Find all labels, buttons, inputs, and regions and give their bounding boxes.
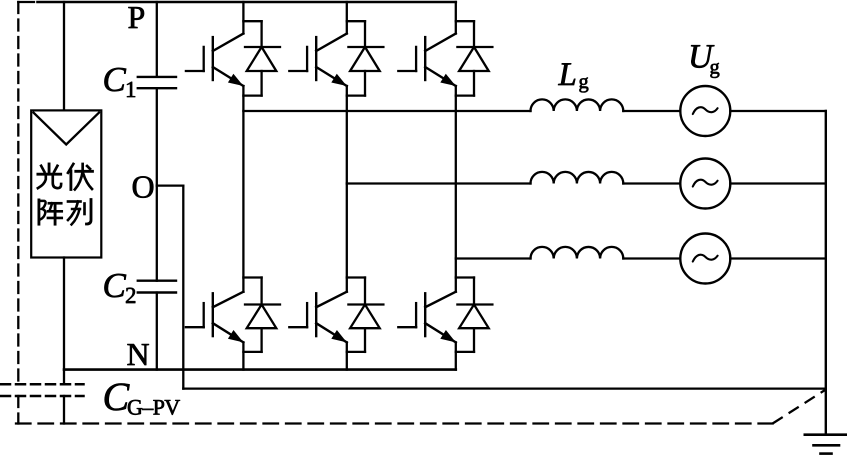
dashed common-mode loop: bottom line xyxy=(16,422,773,424)
capacitor C_G-PV (parasitic, dashed plates) xyxy=(1,384,84,396)
wire: grid neutral vertical xyxy=(825,111,827,435)
capacitor C2 xyxy=(138,281,176,293)
dashed common-mode loop: left vertical xyxy=(17,2,19,424)
ground xyxy=(805,435,846,454)
wire: leg rail x=455.8 middle segment xyxy=(455,86,457,292)
wire: leg rail x=346.8 upper segment xyxy=(346,2,348,34)
wire: leg rail x=243.4 lower segment xyxy=(242,342,244,369)
label Lg xyxy=(558,63,575,85)
wire: phase C line from bridge to inductor xyxy=(456,257,531,259)
wire: DC bus vertical (C2 to N rail) xyxy=(156,293,158,370)
node N xyxy=(127,344,148,365)
PV array (光伏阵列) box xyxy=(31,110,101,257)
AC source Ug phase B xyxy=(680,159,730,209)
wire: DC bus vertical (P to C1) xyxy=(156,2,158,77)
dashed common-mode loop: top-left dash xyxy=(18,1,34,3)
diode D4 (antiparallel) xyxy=(243,278,280,352)
transistor Q4 (IGBT) xyxy=(186,292,244,343)
transistor Q6 (IGBT) xyxy=(398,292,456,343)
label Ug xyxy=(691,45,714,68)
wire: PV array positive lead xyxy=(63,2,65,110)
PV array label 列 xyxy=(68,200,91,225)
dashed common-mode loop: diagonal to ground node xyxy=(773,390,826,424)
diode D1 (antiparallel) xyxy=(243,21,280,95)
PV array label 阵 xyxy=(39,200,62,224)
node P xyxy=(128,7,144,28)
node O xyxy=(133,176,153,198)
wire: phase C line source to neutral bus xyxy=(730,257,826,259)
wire: PV array negative lead down to N rail and C_G-PV xyxy=(63,258,65,424)
diode D6 (antiparallel) xyxy=(456,278,493,352)
wire: N rail xyxy=(64,368,456,371)
wire: phase C line inductor to source xyxy=(623,257,680,259)
wire: leg rail x=455.8 lower segment xyxy=(455,342,457,369)
PV array label 伏 xyxy=(68,164,93,189)
AC source Ug phase C xyxy=(680,234,730,284)
wire: phase A line inductor to source xyxy=(623,110,680,112)
PV array chevron xyxy=(34,113,100,145)
PV array label 光 xyxy=(38,164,61,188)
wire: leg rail x=243.4 middle segment xyxy=(242,86,244,292)
wire: leg rail x=455.8 upper segment xyxy=(455,2,457,34)
diode D5 (antiparallel) xyxy=(347,278,384,352)
label C2 xyxy=(104,274,126,297)
wire: O branch step xyxy=(157,186,184,389)
wire: phase B line from bridge to inductor xyxy=(347,182,531,184)
inductor Lg phase B xyxy=(531,172,624,184)
wire: O line to grid neutral xyxy=(183,387,826,389)
transistor Q2 (IGBT) xyxy=(289,34,347,87)
AC source Ug phase A xyxy=(680,86,730,136)
transistor Q1 (IGBT) xyxy=(186,34,244,87)
wire: phase B line inductor to source xyxy=(623,182,680,184)
wire: top DC rail (P bus) xyxy=(38,1,456,4)
wire: leg rail x=346.8 lower segment xyxy=(346,342,348,369)
wire: phase A line source to neutral bus xyxy=(730,110,826,112)
transistor Q3 (IGBT) xyxy=(398,34,456,87)
capacitor C1 xyxy=(138,77,176,88)
wire: phase A line from bridge to inductor xyxy=(243,110,530,112)
wire: leg rail x=243.4 upper segment xyxy=(242,2,244,34)
diode D2 (antiparallel) xyxy=(347,21,384,95)
wire: phase B line source to neutral bus xyxy=(730,182,826,184)
transistor Q5 (IGBT) xyxy=(289,292,347,343)
wire: leg rail x=346.8 middle segment xyxy=(346,86,348,292)
label C1 xyxy=(104,68,126,91)
diode D3 (antiparallel) xyxy=(456,21,493,95)
inductor Lg phase A xyxy=(531,99,624,111)
inductor Lg phase C xyxy=(531,247,624,259)
wire: DC bus vertical (C1 to C2 through node O) xyxy=(156,88,158,281)
label C_G-PV xyxy=(105,384,130,411)
